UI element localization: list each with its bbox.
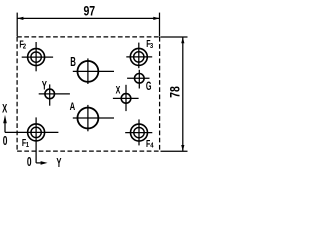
dimension 97: right arrowhead [153,17,159,20]
bolt hole F4 inner circle [134,127,144,137]
svg-text:0: 0 [27,155,32,169]
bolt hole F1 inner circle [31,127,41,137]
bolt hole F3 vertical crosshair [138,43,140,69]
dimension 78: bottom arrowhead [181,145,184,151]
port G vertical crosshair [138,70,140,89]
svg-text:X: X [116,84,121,96]
Y axis arrowhead [41,161,48,165]
mounting face outline: right edge (dashed) [159,37,161,151]
bolt hole F4 vertical crosshair [138,119,140,145]
port G circle [135,74,145,84]
svg-text:1: 1 [26,141,30,149]
dimension 97: right extension line [159,13,161,37]
bolt hole F2 horizontal crosshair [22,56,53,58]
svg-text:3: 3 [150,43,154,51]
mounting face outline: bottom edge (dashed) [17,150,160,152]
svg-text:A: A [70,101,76,114]
X axis arrowhead [3,115,7,123]
port X vertical crosshair [125,85,127,111]
bolt hole F4 horizontal crosshair [125,132,152,134]
port A vertical crosshair [87,105,89,131]
svg-text:X: X [2,103,7,116]
bolt hole F1 horizontal crosshair (runs to X axis corner) [5,131,58,133]
mounting face outline: left edge (dashed) [16,37,18,151]
bolt hole F1 outer circle [28,124,45,141]
port G horizontal crosshair [127,77,149,79]
svg-text:97: 97 [83,3,95,19]
mounting face outline: top edge (dashed) [17,36,160,38]
svg-text:Y: Y [42,80,47,93]
bolt hole F3 outer circle [130,48,147,65]
dimension 97: left extension line [16,13,18,37]
port Y circle [45,89,55,99]
dimension 78: top arrowhead [181,37,184,43]
port B horizontal crosshair [73,70,114,72]
port Y vertical crosshair [49,84,51,105]
bolt hole F3 horizontal crosshair [126,56,152,58]
dimension 78: top extension line [161,36,188,38]
bolt hole F2 vertical crosshair [35,42,37,71]
dimension 78: dimension line [182,37,184,151]
svg-text:Y: Y [56,156,62,171]
bolt hole F1 vertical crosshair (runs to Y axis corner) [35,117,37,162]
port A horizontal crosshair [73,117,114,119]
bolt hole F2 inner circle [31,52,41,62]
svg-text:B: B [70,56,76,69]
bolt hole F4 outer circle [131,124,148,141]
svg-text:0: 0 [3,134,8,148]
port B circle [77,61,98,82]
svg-text:2: 2 [23,43,27,51]
port Y horizontal crosshair [39,93,70,95]
port A circle [77,108,98,129]
dimension 78: bottom extension line [161,150,188,152]
dimension 97: left arrowhead [17,17,23,20]
port B vertical crosshair [87,58,89,84]
dimension 97: dimension line [17,17,159,19]
bolt hole F2 outer circle [28,49,45,66]
bolt hole F3 inner circle [134,52,144,62]
svg-text:4: 4 [150,142,154,150]
port X horizontal crosshair [113,97,139,99]
X axis shaft [4,122,6,133]
svg-text:78: 78 [167,86,183,98]
port X circle [121,94,131,104]
Y axis shaft [36,162,42,164]
svg-text:G: G [146,80,152,93]
